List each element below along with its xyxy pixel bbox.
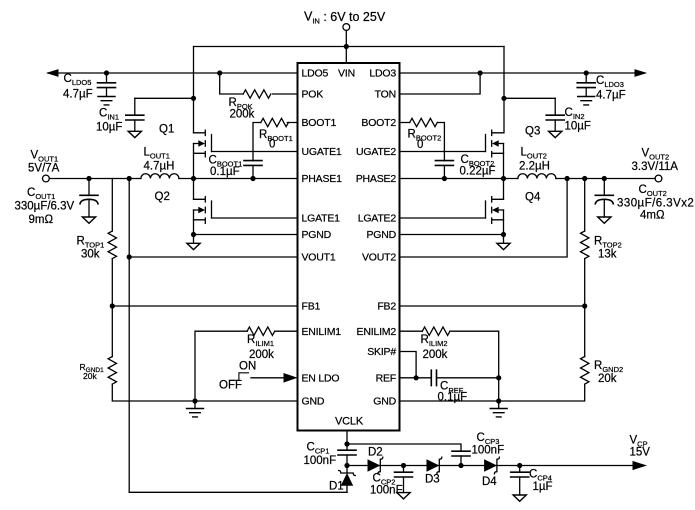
svg-text:20k: 20k [598, 373, 617, 385]
svg-text:D1: D1 [329, 481, 344, 493]
ground CCP2 [397, 493, 410, 499]
svg-text:PGND: PGND [366, 229, 396, 241]
wire RTOP1 to FB node [111, 259, 113, 306]
symbol step waveform [229, 373, 248, 381]
svg-text:FB2: FB2 [377, 301, 396, 313]
svg-text:Q1: Q1 [159, 124, 174, 136]
diode D4 [484, 457, 499, 474]
svg-text:GND: GND [302, 396, 325, 408]
ground signal right [498, 401, 500, 409]
svg-text:VIN : 6V to 25V: VIN : 6V to 25V [304, 10, 386, 26]
svg-text:LOUT2: LOUT2 [521, 147, 547, 161]
junction FB2 dot [582, 303, 587, 308]
wire charge pump top rail [347, 444, 461, 451]
svg-text:COUT1: COUT1 [27, 187, 55, 201]
svg-text:ENILIM1: ENILIM1 [302, 326, 342, 338]
svg-text:RILIM1: RILIM1 [247, 334, 274, 348]
svg-text:VOUT2: VOUT2 [362, 252, 396, 264]
junction CCP2 dot [401, 463, 406, 468]
junction vout2 line dot [565, 176, 570, 181]
svg-text:100nF: 100nF [304, 455, 337, 467]
transistor Q4 [486, 197, 504, 224]
svg-text:RBOOT2: RBOOT2 [408, 128, 442, 142]
svg-text:UGATE1: UGATE1 [302, 146, 342, 158]
ground CLDO3 [578, 97, 595, 105]
svg-text:CLDO3: CLDO3 [596, 75, 624, 89]
wire LDO5 line [48, 72, 298, 74]
wire output rail 2 [556, 178, 655, 180]
ground Q2 source [187, 243, 200, 249]
junction CBOOT1 phase dot [250, 176, 255, 181]
svg-text:0.1µF: 0.1µF [438, 391, 468, 403]
svg-text:BOOT2: BOOT2 [361, 117, 396, 129]
svg-text:30k: 30k [81, 248, 100, 260]
capacitor COUT1 [88, 179, 90, 218]
ground signal left [194, 401, 196, 409]
wire TON [400, 73, 481, 94]
inductor LOUT1 [141, 174, 179, 179]
transistor Q2 [194, 197, 212, 224]
junction rtop2 dot [582, 176, 587, 181]
wire Q2 drain [193, 179, 195, 200]
wire line B vertical [129, 179, 347, 493]
resistor RTOP1 [108, 231, 116, 259]
svg-text:4.7µF: 4.7µF [63, 89, 93, 101]
svg-text:LDO3: LDO3 [369, 68, 396, 80]
svg-text:0.22µF: 0.22µF [460, 165, 496, 177]
svg-text:LGATE1: LGATE1 [302, 213, 341, 225]
svg-text:100nF: 100nF [370, 485, 403, 497]
svg-text:D4: D4 [482, 476, 497, 488]
capacitor CCP3 [452, 451, 470, 456]
resistor RILIM1 [195, 331, 298, 401]
junction CIN2 feed dot [501, 96, 506, 101]
resistor RBOOT2 [400, 123, 445, 161]
ground CLDO5 [98, 97, 115, 105]
wire REF line [400, 377, 499, 379]
diode D2 [368, 457, 383, 474]
svg-text:PHASE2: PHASE2 [356, 173, 397, 185]
svg-text:3.3V/11A: 3.3V/11A [632, 161, 679, 173]
wire FB node to RGND1 [111, 306, 113, 357]
junction VCLK dot [344, 441, 349, 446]
wire charge pump rail [347, 465, 633, 467]
svg-text:GND: GND [373, 396, 396, 408]
svg-text:TON: TON [375, 89, 396, 101]
wire FB2 line [400, 305, 585, 307]
junction COUT1 dot [86, 176, 91, 181]
node VIN input terminal [343, 24, 350, 31]
IC U1 main controller box [298, 63, 400, 431]
wire Q4 source to pgnd [503, 210, 505, 243]
capacitor COUT2 [603, 179, 605, 218]
wire UGATE1 [212, 151, 298, 153]
junction RPOK dot [217, 70, 222, 75]
wire VIN right branch [503, 47, 505, 133]
svg-text:OFF: OFF [219, 380, 242, 392]
svg-text:PGND: PGND [302, 229, 332, 241]
svg-text:200k: 200k [230, 108, 255, 120]
node VOUT1 terminal [43, 175, 50, 182]
junction line B rail dot [127, 176, 132, 181]
wire RGND1 to gnd line [112, 384, 297, 401]
svg-text:VIN: VIN [338, 68, 355, 80]
resistor RILIM2 [400, 331, 499, 401]
svg-text:330µF/6.3V: 330µF/6.3V [15, 200, 75, 212]
wire Q1 source to phase [193, 144, 195, 179]
ground CCP4 [513, 495, 526, 501]
wire RGND2 to gnd line [400, 384, 585, 401]
wire LDO3 line [400, 72, 646, 74]
svg-text:15V: 15V [630, 446, 651, 458]
svg-text:CCP1: CCP1 [307, 441, 330, 455]
wire FB2 node to RGND2 [584, 306, 586, 357]
svg-text:SKIP#: SKIP# [367, 346, 396, 358]
arrow LDO5 left [46, 69, 59, 77]
svg-text:LDO5: LDO5 [302, 68, 329, 80]
svg-text:CLDO5: CLDO5 [64, 73, 92, 87]
svg-text:D3: D3 [425, 474, 440, 486]
svg-text:9mΩ: 9mΩ [29, 214, 54, 226]
wire Q2 source to pgnd [193, 210, 195, 243]
capacitor CCP2 [403, 466, 405, 493]
capacitor CBOOT1 [244, 161, 262, 166]
wire phase1 line [179, 178, 298, 180]
wire UGATE2 [400, 151, 486, 153]
ground COUT1 [82, 217, 95, 223]
svg-text:LOUT1: LOUT1 [144, 147, 170, 161]
arrow VCP [633, 461, 648, 470]
svg-text:2.2µH: 2.2µH [519, 160, 550, 172]
wire VOUT1 line [129, 256, 297, 258]
svg-text:1µF: 1µF [533, 481, 553, 493]
svg-text:13k: 13k [598, 248, 617, 260]
junction line B vout1 dot [127, 254, 132, 259]
capacitor CLDO3 [585, 73, 587, 97]
resistor RBOOT1 [253, 123, 298, 161]
diode D1 [346, 466, 348, 493]
svg-text:PHASE1: PHASE1 [302, 173, 343, 185]
svg-text:UGATE2: UGATE2 [356, 146, 396, 158]
svg-text:20k: 20k [83, 371, 97, 381]
svg-text:Q3: Q3 [525, 126, 540, 138]
junction CCP3 dot [458, 463, 463, 468]
svg-text:VCLK: VCLK [335, 416, 364, 428]
junction cout2 dot [602, 176, 607, 181]
ground Q4 source [497, 243, 510, 249]
wire VIN stem [345, 30, 347, 63]
capacitor CLDO5 [106, 73, 108, 97]
junction TON dot [478, 70, 483, 75]
resistor RGND2 [581, 357, 589, 385]
svg-text:0: 0 [417, 139, 423, 151]
junction CLDO5 dot [104, 70, 109, 75]
svg-text:ENILIM2: ENILIM2 [357, 326, 397, 338]
node VOUT2 terminal [655, 175, 662, 182]
wire phase2 line [400, 178, 518, 180]
svg-text:VOUT1: VOUT1 [31, 150, 59, 164]
wire LGATE1 [212, 217, 298, 219]
junction VIN rail dot [344, 44, 349, 49]
junction CCP4 dot [517, 463, 522, 468]
wire LGATE2 [400, 217, 486, 219]
capacitor CIN1 [134, 98, 136, 131]
junction CCP1 dot [344, 463, 349, 468]
svg-text:REF: REF [376, 372, 396, 384]
svg-text:100nF: 100nF [472, 445, 505, 457]
capacitor CCP4 [519, 466, 521, 496]
wire SKIP tie [400, 352, 417, 378]
svg-text:10µF: 10µF [565, 120, 591, 132]
svg-text:RILIM2: RILIM2 [421, 334, 448, 348]
svg-text:Q2: Q2 [155, 191, 170, 203]
svg-text:4.7µH: 4.7µH [144, 160, 175, 172]
svg-text:Q4: Q4 [525, 192, 541, 204]
svg-text:VOUT1: VOUT1 [302, 252, 336, 264]
inductor LOUT2 [518, 174, 556, 179]
wire divider line A top [111, 179, 113, 232]
capacitor CCP1 [338, 450, 356, 455]
capacitor CIN2 [554, 98, 556, 131]
junction PGND1 dot [191, 232, 196, 237]
junction gnd line dot right [496, 398, 501, 403]
svg-text:4.7µF: 4.7µF [596, 89, 626, 101]
svg-text:330µF/6.3Vx2: 330µF/6.3Vx2 [617, 197, 694, 209]
diode D3 [427, 457, 442, 474]
svg-text:4mΩ: 4mΩ [640, 210, 665, 222]
ground COUT2 [598, 217, 611, 223]
resistor RTOP2 [581, 231, 589, 259]
svg-text:0: 0 [269, 139, 275, 151]
wire VIN rail [194, 46, 505, 48]
svg-text:10µF: 10µF [96, 122, 122, 134]
svg-text:200k: 200k [423, 349, 448, 361]
svg-text:RBOOT1: RBOOT1 [259, 129, 293, 143]
svg-text:FB1: FB1 [302, 301, 321, 313]
ground CIN2 [549, 131, 562, 137]
svg-text:5V/7A: 5V/7A [28, 163, 60, 175]
junction FB1 dot [110, 303, 115, 308]
transistor Q3 [486, 130, 504, 157]
svg-text:0.1µF: 0.1µF [210, 166, 240, 178]
wire CIN2 feed [504, 97, 555, 99]
svg-text:CIN1: CIN1 [99, 108, 119, 122]
capacitor CBOOT2 [435, 161, 453, 166]
resistor RPOK [220, 73, 298, 94]
junction CIN1 feed dot [191, 96, 196, 101]
junction CREF right dot [496, 375, 501, 380]
transistor Q1 [194, 130, 212, 157]
junction PGND2 dot [501, 232, 506, 237]
wire PGND1 line [194, 234, 298, 236]
svg-text:POK: POK [302, 89, 324, 101]
wire VOUT2 sense [400, 179, 568, 258]
wire RTOP2 to FB2 node [584, 259, 586, 306]
svg-text:VOUT2: VOUT2 [642, 148, 670, 162]
svg-text:BOOT1: BOOT1 [302, 117, 337, 129]
wire VIN left branch [193, 47, 195, 133]
junction CBOOT2 phase dot [442, 176, 447, 181]
capacitor CREF [431, 370, 436, 385]
wire CIN1 feed [135, 97, 194, 99]
svg-text:COUT2: COUT2 [639, 184, 667, 198]
svg-text:ON: ON [239, 360, 256, 372]
arrow LDO3 right [635, 69, 648, 77]
wire Q3 source to phase [503, 144, 505, 179]
svg-text:D2: D2 [368, 446, 383, 458]
wire PGND2 line [400, 234, 504, 236]
junction SKIP REF dot [414, 375, 419, 380]
arrow EN LDO [251, 377, 285, 379]
svg-text:200k: 200k [249, 349, 274, 361]
wire FB1 line [112, 305, 297, 307]
junction phase1 dot [191, 176, 196, 181]
resistor RGND1 [108, 357, 116, 385]
wire output rail 1 [49, 178, 141, 180]
wire RTOP2 top [584, 179, 586, 232]
svg-text:CIN2: CIN2 [565, 107, 585, 121]
junction gnd line dot left [192, 398, 197, 403]
ground CIN1 [128, 131, 141, 137]
svg-text:LGATE2: LGATE2 [358, 213, 397, 225]
svg-text:EN LDO: EN LDO [302, 372, 340, 384]
junction phase2 dot [501, 176, 506, 181]
junction CLDO3 dot [584, 70, 589, 75]
wire Q4 drain [503, 179, 505, 200]
wire VCLK stem [346, 431, 348, 451]
